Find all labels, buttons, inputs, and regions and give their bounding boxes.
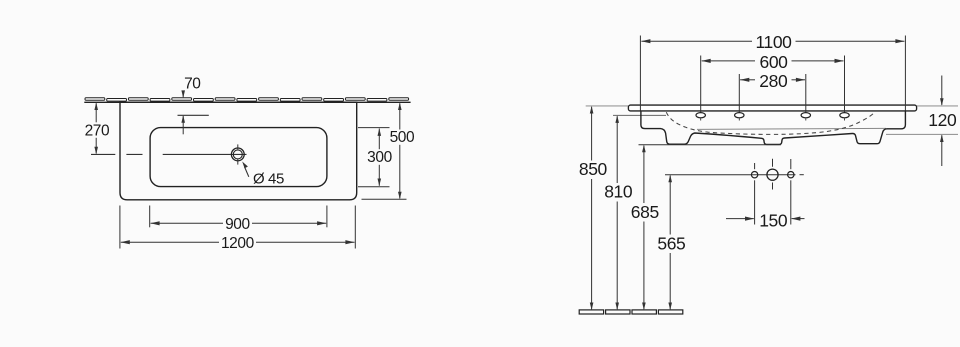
dimension 565 [657, 175, 685, 310]
svg-text:850: 850 [579, 159, 608, 179]
extension line top of slab left (light) [586, 105, 628, 107]
dimension 150 [726, 211, 805, 231]
dimension 685 [631, 145, 659, 310]
centerline solid through bowl [163, 153, 247, 155]
dimension 300 [358, 128, 393, 187]
dimension 850 [579, 106, 608, 310]
mounting hole left [751, 163, 757, 225]
svg-text:Ø 45: Ø 45 [253, 170, 284, 187]
svg-text:500: 500 [390, 129, 415, 146]
dimension 280 [740, 71, 805, 91]
mounting hole center (large) [767, 159, 778, 190]
svg-text:1200: 1200 [221, 235, 255, 252]
floor hatching [579, 310, 683, 314]
svg-text:565: 565 [657, 233, 685, 253]
svg-text:1100: 1100 [755, 32, 792, 52]
svg-text:810: 810 [604, 182, 633, 202]
extension line bottom for 120 (light) [886, 133, 958, 135]
tap hole 1 on slab [696, 113, 705, 121]
centerline dashed (left of basin) [91, 153, 143, 155]
console slab (front view) [628, 105, 916, 111]
basin outer rim outline (top view) [120, 102, 357, 200]
dimension 70 (tap hole offset) [178, 76, 209, 135]
svg-text:685: 685 [631, 202, 659, 222]
extension line 280 right [805, 74, 807, 115]
svg-text:120: 120 [928, 110, 957, 130]
dimension 600 [702, 52, 844, 72]
tap hole 3 on slab [801, 113, 810, 121]
extension line 280 left [738, 74, 740, 115]
mounting hole right [788, 159, 794, 225]
dimension 270 [85, 103, 110, 155]
dimension 900 [150, 206, 327, 234]
extension line 1100 right [904, 36, 906, 111]
tap hole 2 on slab [735, 113, 744, 121]
drain hole circle [231, 144, 244, 164]
basin inner bowl outline (top view) [150, 128, 327, 187]
svg-text:70: 70 [184, 76, 201, 93]
dimension 1100 [641, 32, 904, 52]
svg-text:280: 280 [759, 71, 788, 91]
faucet centerline horizontal [665, 174, 804, 176]
dimension 810 [604, 115, 633, 310]
svg-text:900: 900 [225, 216, 250, 233]
extension line right of slab top (light) [917, 105, 958, 107]
extension line 810 level [613, 114, 666, 116]
extension line 600 right [844, 56, 846, 116]
tap hole 4 on slab [840, 113, 849, 121]
extension line 685 level (under feet) [639, 144, 782, 146]
svg-text:150: 150 [759, 211, 788, 231]
dimension 120 [928, 76, 957, 167]
svg-text:600: 600 [760, 52, 789, 72]
dimension 500 [362, 103, 416, 200]
svg-text:270: 270 [85, 122, 110, 139]
dimension 1200 [120, 206, 355, 253]
extension line 1100 left [639, 36, 641, 111]
svg-text:300: 300 [367, 149, 392, 166]
basin body outline (front view) [641, 111, 906, 144]
leader arrow for drain diameter [242, 162, 249, 177]
apron bottom edge (light, behind feet) [697, 128, 886, 129]
hidden bowl contour (dashed) [666, 112, 874, 134]
wall tile strip (top view) [84, 98, 410, 103]
extension line 600 left [700, 56, 702, 116]
